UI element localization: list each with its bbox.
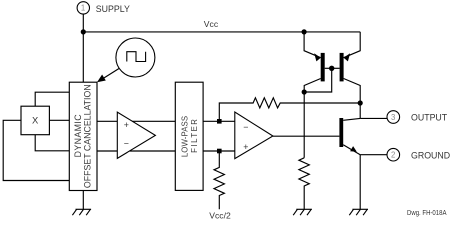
svg-text:FILTER: FILTER: [190, 118, 199, 153]
clock oscillator symbol: [116, 38, 155, 77]
wire Q1 collector: [304, 79, 321, 93]
node feedback junction: [358, 100, 363, 105]
svg-text:2: 2: [391, 151, 395, 160]
pin 3 (OUTPUT terminal): [387, 111, 400, 124]
wire DOC to ground: [82, 191, 84, 210]
node supply/Vcc rail junction: [81, 29, 86, 34]
wire LPF upper output to U2 inverting input: [203, 120, 235, 122]
op-amp U2 (output amplifier): [235, 112, 273, 159]
svg-text:−: −: [243, 122, 248, 132]
op-amp U1 (chopper amplifier): [117, 112, 155, 158]
resistor R3 (to ground): [299, 158, 309, 210]
pin 2 (GROUND terminal): [387, 148, 400, 161]
svg-text:Vcc: Vcc: [204, 19, 219, 29]
node feedback tap: [217, 119, 222, 124]
ground (under Q3 emitter): [349, 209, 368, 215]
wire Q2 collector down to output node: [344, 79, 361, 119]
svg-text:LOW-PASS: LOW-PASS: [180, 116, 189, 157]
wire U1 lower output to LPF: [130, 150, 176, 152]
svg-text:3: 3: [391, 113, 395, 122]
wire collector-base diode tie: [304, 68, 332, 92]
arrow clock to DOC: [97, 69, 119, 83]
wire base tie: [325, 67, 340, 69]
wire Q1 collector node down to resistor R3: [303, 92, 305, 158]
wire hall right terminal: [49, 119, 69, 121]
node base junction: [329, 66, 334, 71]
transistor Q1 (left PNP of current mirror): [304, 32, 325, 82]
svg-text:+: +: [243, 142, 248, 152]
svg-text:Dwg. FH-018A: Dwg. FH-018A: [407, 210, 447, 217]
wire hall top terminal: [35, 92, 69, 106]
wire U2 output to Q3 base: [273, 135, 340, 137]
svg-text:GROUND: GROUND: [411, 151, 450, 161]
block LOW-PASS FILTER: [175, 82, 203, 190]
svg-text:−: −: [124, 139, 129, 149]
svg-text:X: X: [32, 115, 39, 126]
wire LPF lower output to U2 non-inverting input: [203, 150, 235, 152]
wire hall bottom terminal: [35, 135, 69, 151]
transistor Q2 (right PNP of current mirror): [340, 32, 361, 82]
wire Q3 emitter to ground: [359, 155, 361, 210]
wire hall left terminal: [3, 120, 69, 180]
svg-text:SUPPLY: SUPPLY: [96, 4, 130, 14]
resistor R2 (to Vcc/2): [214, 151, 224, 209]
ground (under DOC): [72, 209, 91, 215]
hall element X: [21, 106, 49, 135]
pin 1 (SUPPLY terminal): [77, 2, 89, 14]
node Vcc/2 tap: [217, 149, 222, 154]
node rail to Q1 emitter: [302, 29, 307, 34]
svg-text:OUTPUT: OUTPUT: [411, 112, 448, 122]
wire U1 upper output to LPF: [132, 120, 175, 122]
wire DOC to U1 lower input: [97, 150, 117, 152]
transistor Q3 (NPN output): [339, 118, 360, 155]
wire supply pin to DOC box top: [82, 14, 84, 82]
ground (under R3): [293, 209, 312, 215]
resistor R1 (feedback): [219, 98, 360, 122]
svg-text:1: 1: [81, 4, 85, 13]
wire DOC to U1 upper input: [97, 120, 117, 122]
wire Q3 emitter to pin 2: [360, 154, 387, 156]
node Q1 collector junction: [302, 89, 307, 94]
wire Vcc rail: [83, 31, 360, 33]
svg-text:OFFSET CANCELLATION: OFFSET CANCELLATION: [83, 84, 93, 188]
svg-text:Vcc/2: Vcc/2: [209, 211, 231, 221]
svg-text:+: +: [124, 120, 129, 130]
wire output node to pin 3: [360, 117, 387, 119]
block DYNAMIC OFFSET CANCELLATION: [69, 82, 97, 190]
